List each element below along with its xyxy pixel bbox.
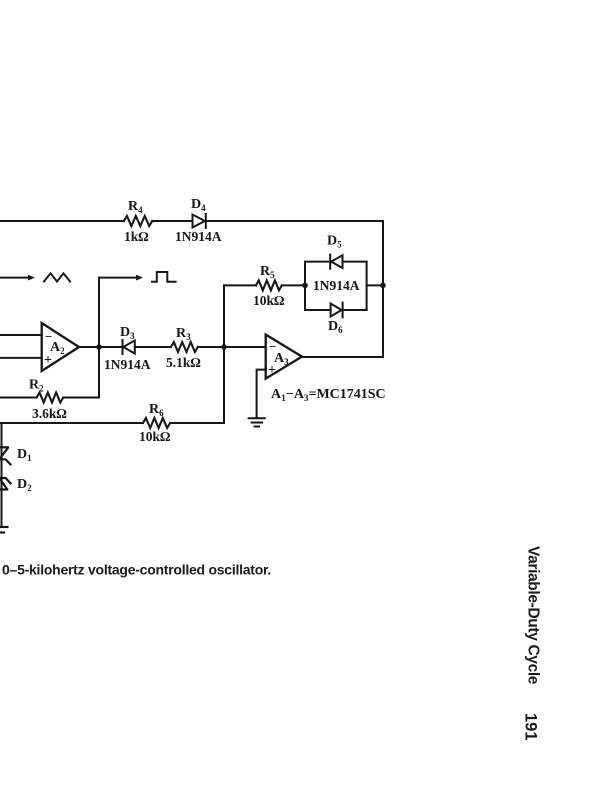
wire A2 noninverting input — [0, 357, 42, 359]
resistor R3 — [171, 342, 198, 352]
wire A3 noninverting input — [257, 370, 266, 417]
svg-text:D4: D4 — [191, 197, 206, 213]
svg-text:R5: R5 — [260, 264, 275, 280]
svg-text:R4: R4 — [128, 199, 143, 215]
svg-text:0–5-kilohertz voltage-controll: 0–5-kilohertz voltage-controlled oscilla… — [2, 562, 271, 578]
svg-text:D2: D2 — [17, 477, 32, 493]
wire triangle-wave arrow — [0, 277, 28, 279]
wire D4 to right rail — [206, 220, 383, 222]
resistor R2 — [0, 397, 37, 399]
diode D1 — [0, 447, 11, 464]
diode D5 — [330, 255, 342, 269]
node junction feedback tap — [221, 344, 227, 350]
wire vertical branch at x=224 — [223, 285, 225, 423]
svg-text:10kΩ: 10kΩ — [253, 293, 285, 308]
svg-text:A2: A2 — [50, 340, 65, 356]
svg-text:5.1kΩ: 5.1kΩ — [166, 355, 201, 370]
resistor R5 — [224, 284, 256, 286]
wire square-wave branch — [99, 277, 136, 279]
svg-text:D6: D6 — [328, 319, 343, 335]
wire A2 output — [79, 346, 123, 348]
ground left — [0, 527, 8, 533]
svg-text:1kΩ: 1kΩ — [124, 229, 149, 244]
svg-text:3.6kΩ: 3.6kΩ — [32, 406, 67, 421]
resistor R4 — [124, 216, 153, 226]
diode box frame — [305, 262, 383, 310]
wire right vertical rail — [382, 221, 384, 357]
svg-text:1N914A: 1N914A — [313, 278, 360, 293]
diode D4 — [193, 214, 206, 228]
svg-text:A1−A3=MC1741SC: A1−A3=MC1741SC — [271, 387, 386, 404]
svg-text:+: + — [268, 363, 276, 378]
wire top rail left segment — [0, 220, 124, 222]
wire left vertical rail — [1, 423, 3, 526]
svg-text:1N914A: 1N914A — [104, 357, 151, 372]
node junction right of diode box — [380, 283, 386, 289]
svg-text:Variable-Duty Cycle: Variable-Duty Cycle — [525, 546, 542, 685]
svg-text:D3: D3 — [120, 325, 135, 341]
svg-text:191: 191 — [522, 713, 540, 741]
node junction A2 output — [96, 344, 102, 350]
wire R4 to D4 — [152, 220, 192, 222]
svg-text:R3: R3 — [176, 326, 191, 342]
op-amp A2 — [42, 323, 79, 371]
op-amp A3 — [266, 335, 302, 379]
svg-text:R6: R6 — [149, 402, 164, 418]
resistor R6 — [0, 422, 143, 424]
wire vertical branch at x=99 — [98, 278, 100, 398]
svg-text:1N914A: 1N914A — [175, 229, 222, 244]
wire R3 to A3 — [198, 346, 266, 348]
diode D2 — [0, 478, 11, 490]
wire A2 inverting input — [0, 334, 42, 336]
svg-text:D5: D5 — [327, 234, 342, 250]
diode D3 — [123, 340, 135, 354]
wire A3 output — [302, 356, 383, 358]
svg-text:R2: R2 — [29, 378, 44, 394]
ground A3 — [249, 418, 265, 426]
svg-text:10kΩ: 10kΩ — [139, 429, 171, 444]
svg-text:+: + — [44, 353, 52, 368]
svg-text:A3: A3 — [274, 351, 289, 367]
svg-text:D1: D1 — [17, 447, 32, 463]
triangle wave symbol — [44, 273, 70, 281]
node junction diode box left — [302, 283, 308, 289]
diode D6 — [331, 303, 343, 318]
square wave symbol — [152, 272, 176, 282]
wire D3 to R3 — [135, 346, 171, 348]
